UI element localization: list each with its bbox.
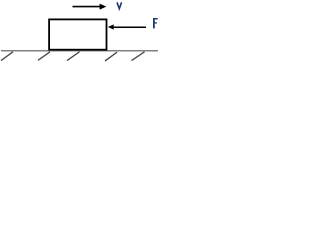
velocity arrowhead (points right) <box>100 4 107 10</box>
hatch 2 <box>38 52 50 61</box>
hatch 5 <box>132 52 145 61</box>
wire: force arrow shaft <box>113 26 146 28</box>
block (box on surface) <box>49 19 106 49</box>
label F <box>153 18 158 28</box>
label V <box>117 2 122 8</box>
hatch 1 <box>1 52 13 61</box>
hatch 4 <box>105 52 117 61</box>
force arrowhead (points left, touches block) <box>108 24 114 29</box>
ground line <box>1 50 158 52</box>
wire: velocity arrow shaft <box>73 6 101 8</box>
hatch 3 <box>67 52 80 61</box>
